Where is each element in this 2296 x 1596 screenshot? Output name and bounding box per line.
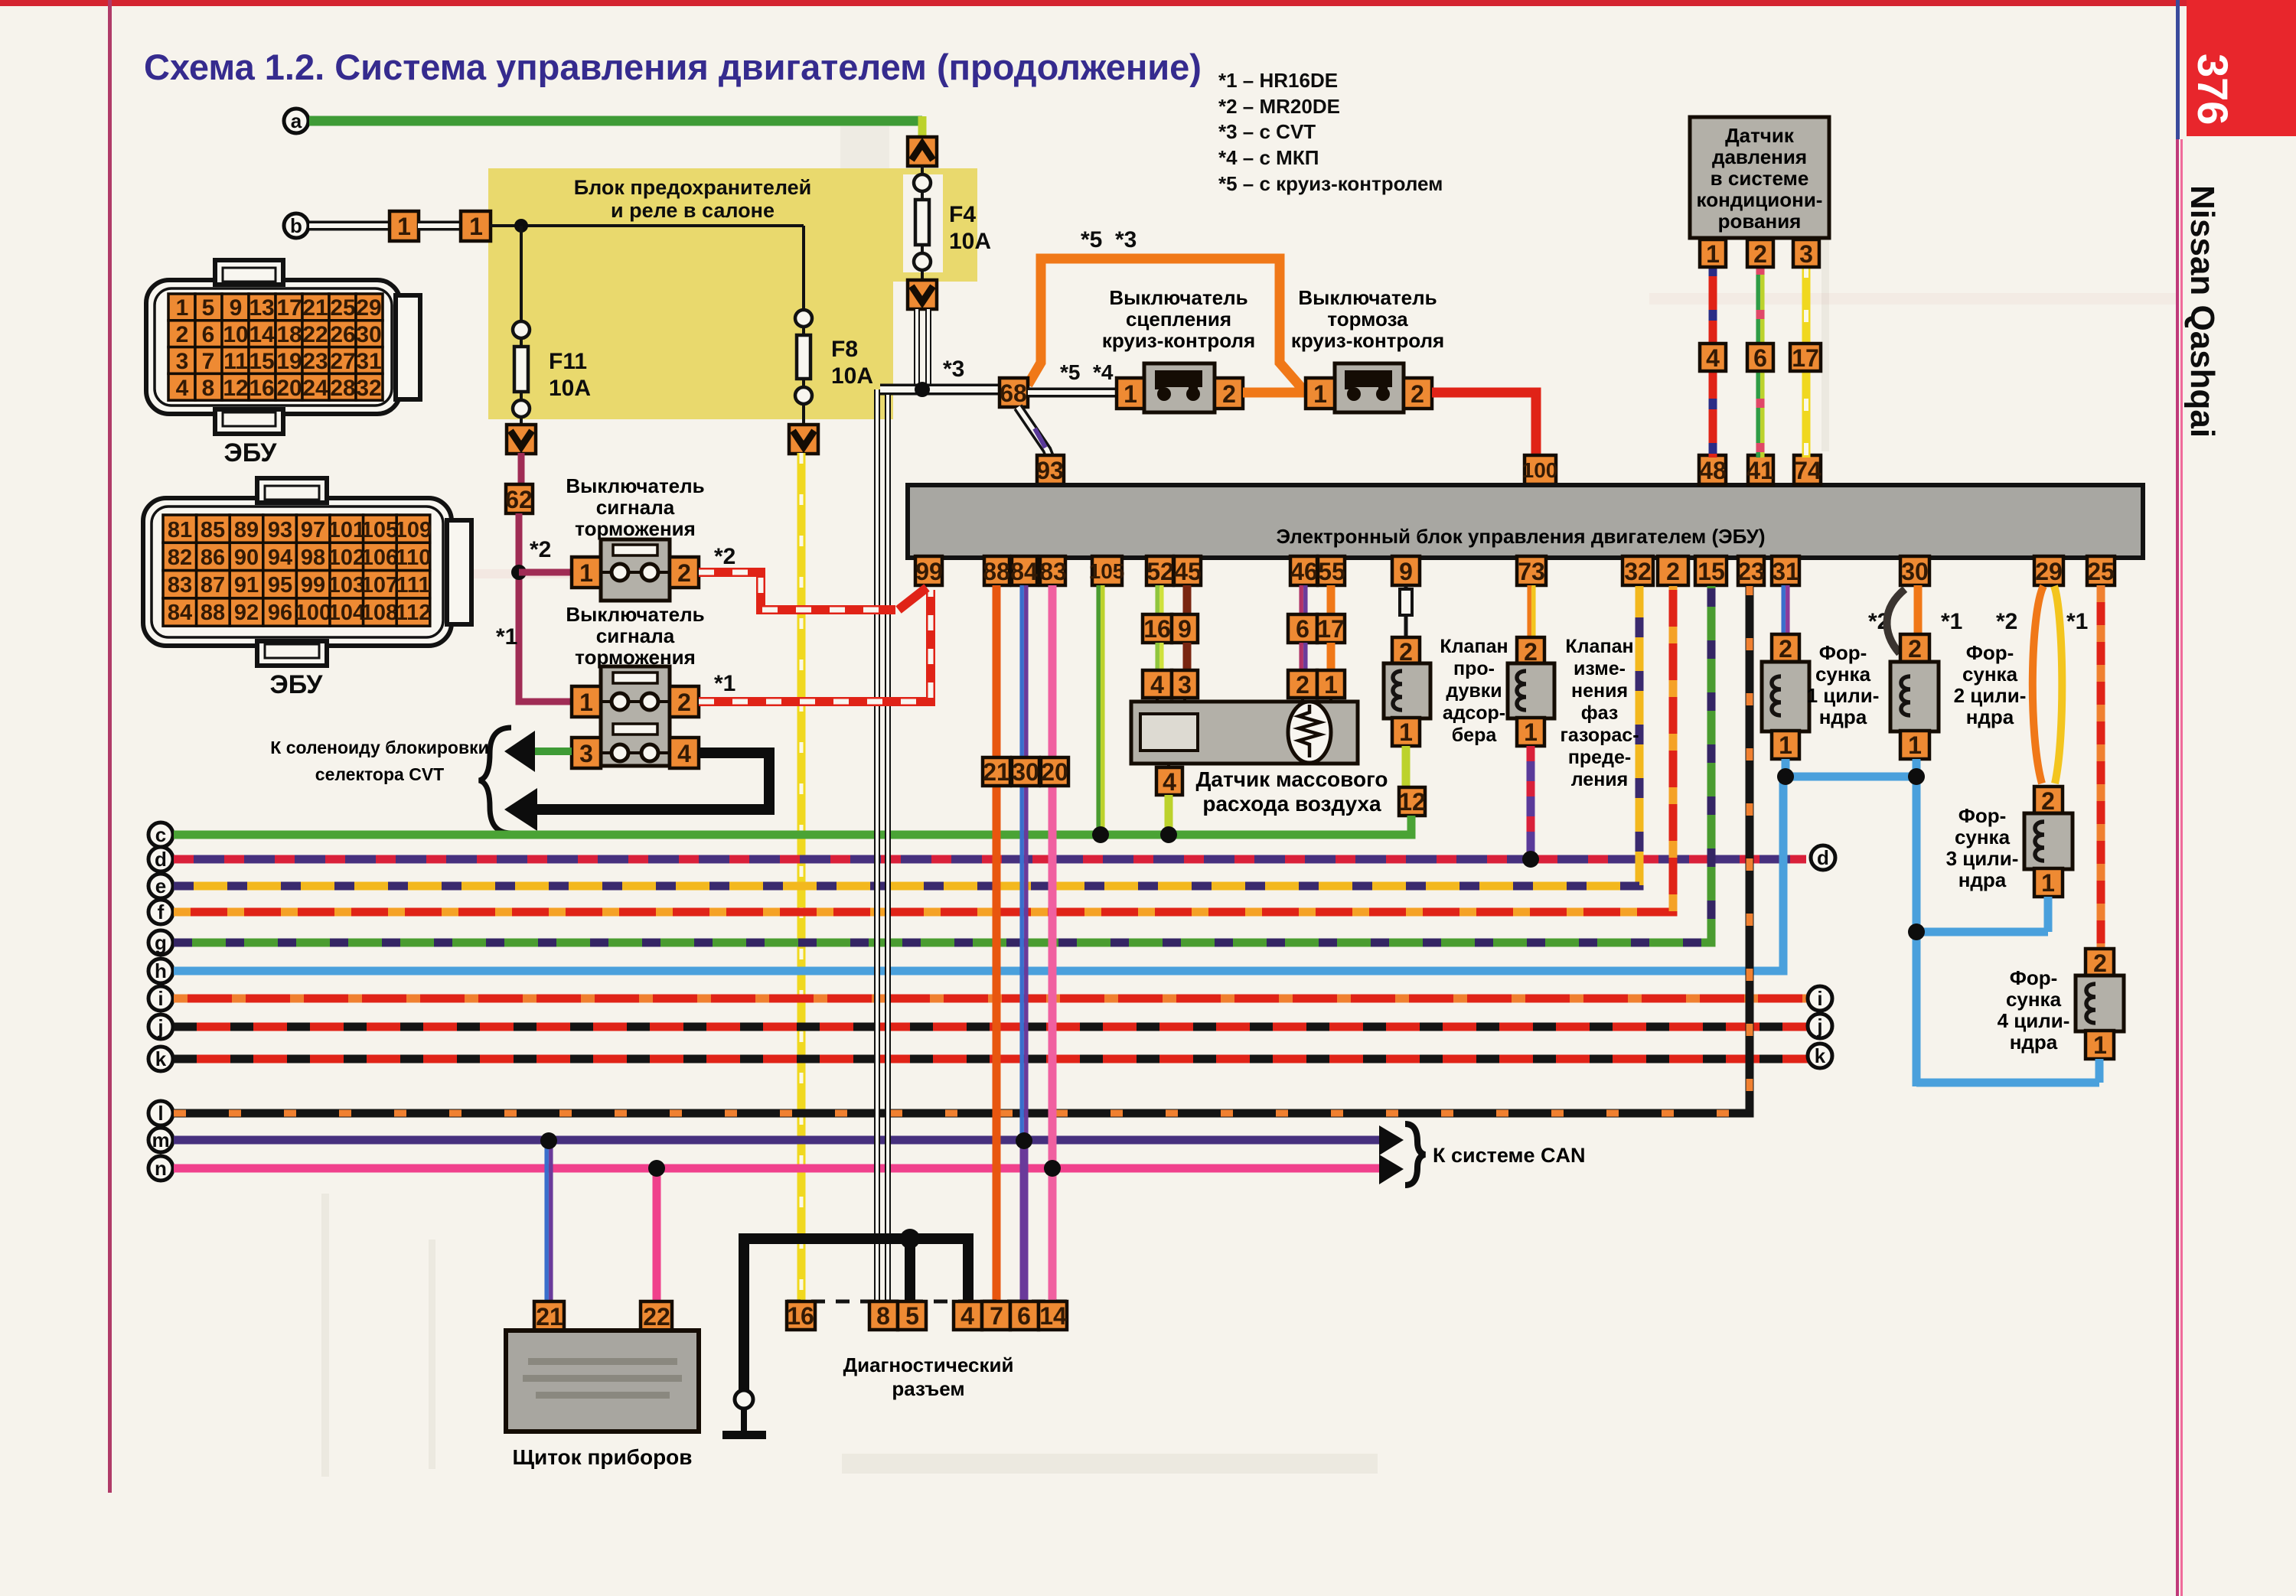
wire c green bus xyxy=(174,813,1411,835)
injector 4 coil xyxy=(2086,984,2095,1023)
node g xyxy=(148,930,173,955)
svg-text:2: 2 xyxy=(1666,558,1680,585)
svg-text:6: 6 xyxy=(1296,615,1309,643)
svg-text:Nissan Qashqai: Nissan Qashqai xyxy=(2183,185,2221,438)
wire i orange dashes xyxy=(174,995,1808,1003)
svg-text:рования: рования xyxy=(1718,210,1802,233)
svg-text:сигнала: сигнала xyxy=(596,624,675,647)
wire green to CVT solenoid xyxy=(531,748,572,755)
wire k red bus xyxy=(174,1055,1808,1063)
ECU pin 74 xyxy=(1794,455,1821,484)
wire 84->diag6 violet xyxy=(1020,1141,1029,1304)
connector pin 17 (MAF) xyxy=(1317,614,1345,643)
wire e yellow bus xyxy=(174,586,1639,886)
wire 68-93 violet segment xyxy=(1035,428,1045,448)
node j xyxy=(148,1015,173,1039)
cruise brake switch pin 1 xyxy=(1306,378,1335,409)
svg-text:*2: *2 xyxy=(1996,609,2017,634)
svg-text:бера: бера xyxy=(1452,725,1498,746)
injector 1 coil xyxy=(1772,676,1781,715)
svg-text:88: 88 xyxy=(201,601,225,625)
svg-text:29: 29 xyxy=(356,295,381,321)
svg-text:9: 9 xyxy=(1178,615,1192,643)
svg-text:23: 23 xyxy=(302,349,328,374)
svg-text:25: 25 xyxy=(2087,558,2115,585)
svg-text:376: 376 xyxy=(2189,54,2237,125)
wire sensor pin3 yellow xyxy=(1802,265,1811,458)
connector pin 100 xyxy=(1522,455,1558,484)
arrow to CAN (n wire) xyxy=(1379,1155,1404,1184)
svg-text:83: 83 xyxy=(1039,558,1067,585)
connector pin 16 (MAF) xyxy=(1143,614,1172,643)
connector pin 6 (A/C) xyxy=(1747,344,1773,372)
wire a green xyxy=(309,116,922,126)
svg-text:1: 1 xyxy=(397,213,411,240)
fuse and relay box (yellow) xyxy=(488,168,977,419)
page right crimson border line xyxy=(2176,139,2179,1596)
junction 84 wire on m xyxy=(1016,1132,1032,1149)
svg-text:Блок предохранителей: Блок предохранителей xyxy=(574,176,812,199)
instrument panel body xyxy=(506,1331,699,1432)
wire i red bus xyxy=(174,995,1808,1003)
wire m to pin 21 blue/violet xyxy=(546,1141,551,1304)
junction blue h1 right xyxy=(1908,768,1925,785)
wire 9-3 maroon xyxy=(1183,643,1192,672)
connector chevron below F11 xyxy=(507,425,536,454)
svg-text:17: 17 xyxy=(276,295,302,321)
svg-text:102: 102 xyxy=(328,546,365,570)
cruise clutch switch pin 1 xyxy=(1117,378,1144,409)
wire VVT pin1 red dashes xyxy=(1527,746,1535,859)
diagnostic pin 6 xyxy=(1010,1301,1039,1330)
CAN brace xyxy=(1405,1124,1425,1185)
svg-text:22: 22 xyxy=(302,322,328,347)
svg-text:32: 32 xyxy=(356,376,381,401)
svg-text:84: 84 xyxy=(1010,558,1038,585)
svg-text:81: 81 xyxy=(168,518,192,542)
svg-text:52: 52 xyxy=(1146,558,1174,585)
junction MAF4 on c xyxy=(1160,826,1177,843)
svg-text:6: 6 xyxy=(202,322,215,347)
connector chevron above F4 xyxy=(908,137,937,166)
svg-text:100: 100 xyxy=(1522,458,1558,482)
ECU pin 9 xyxy=(1392,556,1420,585)
connector pin 17 (A/C) xyxy=(1790,344,1821,372)
purge valve pin 2 xyxy=(1392,637,1420,666)
diagnostic pin 5 xyxy=(898,1301,926,1330)
svg-text:газорас-: газорас- xyxy=(1560,725,1639,746)
purge valve pin 1 xyxy=(1392,718,1420,746)
svg-text:29: 29 xyxy=(2035,558,2063,585)
diagnostic pin 16 xyxy=(787,1301,815,1330)
diagnostic connector dashed outline xyxy=(787,1300,1067,1304)
svg-text:ндра: ндра xyxy=(1819,705,1867,728)
svg-text:30: 30 xyxy=(1901,558,1929,585)
svg-text:16: 16 xyxy=(787,1302,814,1330)
svg-text:4: 4 xyxy=(677,740,691,767)
ECU pin 31 xyxy=(1772,556,1799,585)
MAF sensor stubs xyxy=(1157,698,1331,770)
node d xyxy=(148,847,173,871)
ECU pin 48 xyxy=(1699,455,1727,484)
svg-text:*3: *3 xyxy=(1115,227,1137,252)
junction F4/*3 xyxy=(915,382,930,397)
svg-text:ндра: ндра xyxy=(2010,1031,2058,1054)
ECU pin 55 xyxy=(1318,556,1345,585)
ECU pin 99 xyxy=(915,556,943,585)
svg-text:84: 84 xyxy=(168,601,192,625)
wire black bus to ground xyxy=(739,1233,749,1391)
injector 3 pin 2 xyxy=(2034,787,2063,815)
ECU pin 32 xyxy=(1623,556,1653,585)
svg-text:12: 12 xyxy=(1398,788,1426,816)
wire 45 maroon xyxy=(1183,585,1192,617)
wire F4 to chevron stub xyxy=(921,269,924,282)
svg-text:h: h xyxy=(155,959,167,982)
svg-text:Фор-: Фор- xyxy=(2010,966,2058,989)
svg-text:сцепления: сцепления xyxy=(1126,308,1231,331)
instrument panel faint inner text xyxy=(523,1358,682,1399)
svg-text:2: 2 xyxy=(2041,787,2055,815)
svg-text:*2: *2 xyxy=(714,544,735,569)
wire 30 orange down (*1) xyxy=(1914,585,1923,637)
instrument panel pin 22 xyxy=(641,1301,672,1331)
brake switch 1 pin 1 xyxy=(572,557,601,588)
wire F4 white down pair right xyxy=(925,309,931,389)
wire 52 light green/lime xyxy=(1157,585,1162,617)
node j right end xyxy=(1808,1014,1832,1038)
svg-text:4: 4 xyxy=(960,1302,974,1330)
wire 31 blue/violet down xyxy=(1783,585,1788,637)
svg-text:адсор-: адсор- xyxy=(1443,702,1505,724)
svg-text:68: 68 xyxy=(1000,379,1027,407)
svg-text:73: 73 xyxy=(1518,558,1545,585)
svg-text:88: 88 xyxy=(983,558,1010,585)
svg-text:1: 1 xyxy=(469,213,483,240)
junction VVT on d xyxy=(1522,851,1539,868)
svg-text:ЭБУ: ЭБУ xyxy=(224,438,278,467)
wire m violet bus xyxy=(174,1136,1380,1145)
svg-text:фаз: фаз xyxy=(1581,702,1619,724)
ECU connector view pins 81-112 xyxy=(143,478,471,666)
svg-text:93: 93 xyxy=(268,518,292,542)
svg-text:96: 96 xyxy=(268,601,292,625)
wire 17-1 orange xyxy=(1327,643,1336,672)
svg-text:*1: *1 xyxy=(714,671,735,696)
svg-text:f: f xyxy=(158,901,165,923)
wire injector common blue h2 xyxy=(1916,928,2048,936)
junction 21 on m xyxy=(540,1132,557,1149)
svg-text:104: 104 xyxy=(328,601,365,625)
junction 83 wire on n xyxy=(1044,1160,1061,1177)
ECU pin 25 xyxy=(2087,556,2115,585)
cruise brake switch body xyxy=(1335,363,1404,412)
wire brake pin2 to pin 100 red xyxy=(1432,392,1536,456)
svg-text:9: 9 xyxy=(1399,558,1413,585)
ECU pin 45 xyxy=(1174,556,1202,585)
svg-text:27: 27 xyxy=(330,349,355,374)
junction blue h2 xyxy=(1908,923,1925,940)
svg-text:ления: ления xyxy=(1571,769,1629,790)
wire sensor pin2 green/lime xyxy=(1758,265,1763,458)
svg-text:112: 112 xyxy=(396,601,432,625)
svg-text:82: 82 xyxy=(168,546,192,570)
svg-text:2: 2 xyxy=(2093,949,2107,977)
svg-text:5: 5 xyxy=(905,1302,919,1330)
svg-text:и реле в салоне: и реле в салоне xyxy=(611,199,775,222)
svg-text:89: 89 xyxy=(234,518,259,542)
svg-text:10А: 10А xyxy=(949,229,991,254)
svg-text:101: 101 xyxy=(328,518,365,542)
wire a-to-F4 lime stub xyxy=(918,116,927,138)
svg-text:2: 2 xyxy=(677,689,691,716)
node m xyxy=(148,1128,173,1152)
wire k black dashes xyxy=(174,1055,1808,1063)
injector 1 pin 1 xyxy=(1772,731,1799,759)
svg-text:2: 2 xyxy=(176,322,189,347)
svg-text:15: 15 xyxy=(249,349,274,374)
wire b white segment 2 xyxy=(418,221,462,231)
svg-text:*3: *3 xyxy=(943,357,964,382)
connector pin 30 (ECU harness) xyxy=(1012,757,1039,786)
svg-text:j: j xyxy=(157,1015,163,1038)
svg-text:*1: *1 xyxy=(1941,609,1962,634)
junction 105 on c xyxy=(1092,826,1109,843)
node b xyxy=(284,213,308,238)
svg-text:n: n xyxy=(155,1157,167,1180)
svg-text:сунка: сунка xyxy=(1955,826,2011,848)
svg-text:6: 6 xyxy=(1753,344,1767,372)
svg-text:22: 22 xyxy=(643,1303,670,1331)
svg-text:100: 100 xyxy=(295,601,331,625)
ECU pin 41 xyxy=(1746,455,1774,484)
svg-text:17: 17 xyxy=(1792,344,1819,372)
svg-text:18: 18 xyxy=(276,322,302,347)
connector pin 20 (ECU harness) xyxy=(1041,757,1068,786)
svg-text:105: 105 xyxy=(1089,559,1125,583)
wire white vertical pair over buses right xyxy=(885,811,891,1304)
wire white vertical pair to diag left xyxy=(874,389,880,1304)
wire 68 to clutch switch white xyxy=(1028,388,1117,398)
wire white vertical pair to diag right xyxy=(885,395,891,1304)
svg-text:изме-: изме- xyxy=(1574,658,1626,679)
svg-text:8: 8 xyxy=(876,1302,890,1330)
svg-text:105: 105 xyxy=(361,518,398,542)
wire sensor pin1 red xyxy=(1709,265,1717,458)
junction *2 branch xyxy=(511,565,527,580)
svg-text:23: 23 xyxy=(1737,558,1765,585)
svg-text:сунка: сунка xyxy=(2006,988,2062,1011)
brake switch 2 pin 4 xyxy=(670,738,699,768)
diagnostic pin 14 xyxy=(1039,1301,1067,1330)
svg-text:2: 2 xyxy=(1779,635,1792,663)
wire j red bus xyxy=(174,1023,1808,1031)
svg-text:g: g xyxy=(155,931,167,954)
svg-text:в системе: в системе xyxy=(1711,167,1809,190)
svg-text:13: 13 xyxy=(249,295,274,321)
wire 83 pink down to diag pin 14 xyxy=(1049,585,1057,1304)
fuse F8 xyxy=(795,310,812,404)
node k xyxy=(148,1047,173,1071)
wire f orange dashes xyxy=(174,586,1673,912)
node n xyxy=(148,1156,173,1181)
svg-text:F8: F8 xyxy=(831,337,858,362)
wire F8 to chevron stub xyxy=(802,403,805,426)
connector pin 68 xyxy=(1000,378,1028,407)
node d right end xyxy=(1811,845,1835,870)
node k right end xyxy=(1808,1044,1832,1068)
wire l black bus xyxy=(174,586,1750,1113)
svg-text:17: 17 xyxy=(1317,615,1345,643)
svg-text:109: 109 xyxy=(395,518,432,542)
svg-text:10А: 10А xyxy=(549,376,591,401)
injector 2 coil xyxy=(1901,676,1910,715)
wire 105 green/lime down to c xyxy=(1098,585,1103,835)
wire *3 horizontal white xyxy=(880,384,1000,396)
svg-text:i: i xyxy=(1817,987,1822,1010)
svg-text:15: 15 xyxy=(1698,558,1725,585)
A/C sensor pin 1 xyxy=(1700,239,1726,268)
svg-text:16: 16 xyxy=(249,376,274,401)
svg-text:b: b xyxy=(290,214,302,237)
wire d red dashes xyxy=(174,855,1806,864)
MAF resistor zigzag xyxy=(1299,705,1320,757)
wire 46 crimson/violet xyxy=(1301,585,1306,617)
svg-text:*4: *4 xyxy=(1093,360,1114,384)
wire 29 yellow bow (*1) xyxy=(2054,586,2062,783)
svg-text:14: 14 xyxy=(249,322,275,347)
svg-text:26: 26 xyxy=(330,322,355,347)
svg-text:разъем: разъем xyxy=(892,1377,964,1400)
svg-text:3: 3 xyxy=(1799,240,1813,268)
svg-text:*2: *2 xyxy=(530,537,551,562)
svg-text:2 цили-: 2 цили- xyxy=(1954,684,2027,707)
svg-text:*4 – с МКП: *4 – с МКП xyxy=(1218,146,1319,169)
svg-text:Щиток приборов: Щиток приборов xyxy=(512,1445,692,1469)
svg-text:F11: F11 xyxy=(549,349,587,374)
svg-text:2: 2 xyxy=(1296,671,1309,699)
svg-text:d: d xyxy=(155,848,167,871)
wire black CVT loop from pin 4 xyxy=(536,753,769,809)
svg-text:давления: давления xyxy=(1712,145,1807,168)
svg-text:87: 87 xyxy=(201,573,225,598)
injector 4 body xyxy=(2076,976,2124,1031)
svg-text:ндра: ндра xyxy=(1958,868,2007,891)
svg-text:j: j xyxy=(1816,1015,1822,1037)
MAF pin 2 xyxy=(1288,670,1317,699)
svg-text:Клапан: Клапан xyxy=(1565,636,1633,657)
svg-text:107: 107 xyxy=(361,573,398,598)
arrow to CVT solenoid (green wire) xyxy=(504,731,535,772)
junction b/F11 xyxy=(514,219,528,233)
svg-text:93: 93 xyxy=(1036,457,1064,484)
cruise clutch switch pin 2 xyxy=(1215,378,1243,409)
wire F8 yellow white dashes xyxy=(800,453,804,1304)
injector 3 pin 1 xyxy=(2034,868,2063,897)
wire *2 white dashes xyxy=(699,572,895,610)
wire black bus horizontal xyxy=(744,1233,968,1244)
MAF resistor ellipse xyxy=(1288,702,1331,763)
svg-text:1: 1 xyxy=(579,559,593,587)
svg-text:круиз-контроля: круиз-контроля xyxy=(1291,329,1444,352)
A/C sensor pin 3 xyxy=(1793,239,1819,268)
CVT brace xyxy=(479,728,511,833)
svg-text:31: 31 xyxy=(356,349,381,374)
svg-text:Клапан: Клапан xyxy=(1440,636,1508,657)
svg-text:К соленоиду блокировки: К соленоиду блокировки xyxy=(270,738,488,757)
svg-text:48: 48 xyxy=(1699,457,1727,484)
svg-text:Диагностический: Диагностический xyxy=(843,1353,1014,1376)
brake switch 2 pin 3 xyxy=(572,738,601,768)
page right blue border segment xyxy=(2176,0,2180,139)
svg-text:k: k xyxy=(1815,1044,1826,1067)
svg-text:1: 1 xyxy=(1908,731,1922,759)
svg-text:селектора CVT: селектора CVT xyxy=(315,764,444,784)
wire clutch pin2 to brake pin1 orange xyxy=(1243,388,1306,398)
ECU pin 62 xyxy=(505,484,533,513)
svg-text:94: 94 xyxy=(268,546,292,570)
wire j black dashes xyxy=(174,1023,1808,1031)
wire *2 red dashed from switch1 xyxy=(699,572,895,610)
svg-text:24: 24 xyxy=(302,376,328,401)
junction 22 on n xyxy=(648,1160,665,1177)
svg-text:1: 1 xyxy=(2041,869,2055,897)
connector pin 93 xyxy=(1036,455,1064,484)
wire sensor pin3 white dashes xyxy=(1804,265,1808,458)
svg-text:85: 85 xyxy=(201,518,225,542)
svg-text:10А: 10А xyxy=(831,363,873,389)
svg-text:30: 30 xyxy=(356,322,381,347)
diagnostic pin 4 xyxy=(954,1301,982,1330)
cruise clutch switch body xyxy=(1144,363,1215,412)
purge valve coil xyxy=(1393,671,1402,710)
svg-text:1: 1 xyxy=(1524,718,1538,746)
svg-text:11: 11 xyxy=(223,349,248,374)
VVT valve pin 1 xyxy=(1517,718,1544,746)
wire F11 feed xyxy=(520,226,523,321)
connector chevron below F4 xyxy=(908,280,937,309)
wire 30 black hook (*2) xyxy=(1887,589,1905,653)
ECU pin 30 xyxy=(1900,556,1929,585)
ECU pin 23 xyxy=(1737,556,1765,585)
svg-text:1 цили-: 1 цили- xyxy=(1807,684,1880,707)
wire cruise orange loop xyxy=(1028,259,1306,392)
wire injector common blue h3 xyxy=(1916,1079,2099,1087)
svg-text:14: 14 xyxy=(1039,1302,1067,1330)
node h xyxy=(148,959,173,983)
svg-text:*2 – MR20DE: *2 – MR20DE xyxy=(1218,95,1340,118)
svg-text:Датчик массового: Датчик массового xyxy=(1195,767,1388,791)
wire injector 3 common blue xyxy=(2044,897,2053,932)
svg-text:ндра: ндра xyxy=(1966,705,2014,728)
MAF pin 4 (lower) xyxy=(1156,767,1182,796)
svg-text:1: 1 xyxy=(1324,671,1338,699)
svg-text:тормоза: тормоза xyxy=(1327,308,1408,331)
ECU pin 73 xyxy=(1517,556,1546,585)
ECU pin 84 xyxy=(1010,556,1038,585)
svg-text:1: 1 xyxy=(1779,731,1792,759)
svg-text:90: 90 xyxy=(234,546,259,570)
arrow to CAN (m wire) xyxy=(1379,1125,1404,1155)
svg-text:86: 86 xyxy=(201,546,225,570)
svg-text:сунка: сунка xyxy=(1815,663,1871,686)
svg-text:*3 – с CVT: *3 – с CVT xyxy=(1218,120,1316,143)
wire F11 to chevron stub xyxy=(520,416,523,426)
svg-text:21: 21 xyxy=(302,295,328,321)
svg-text:e: e xyxy=(155,875,166,897)
wire 68 to 93 diagonal white xyxy=(1018,407,1050,458)
wire sensor pin2 red dashes xyxy=(1756,265,1765,458)
